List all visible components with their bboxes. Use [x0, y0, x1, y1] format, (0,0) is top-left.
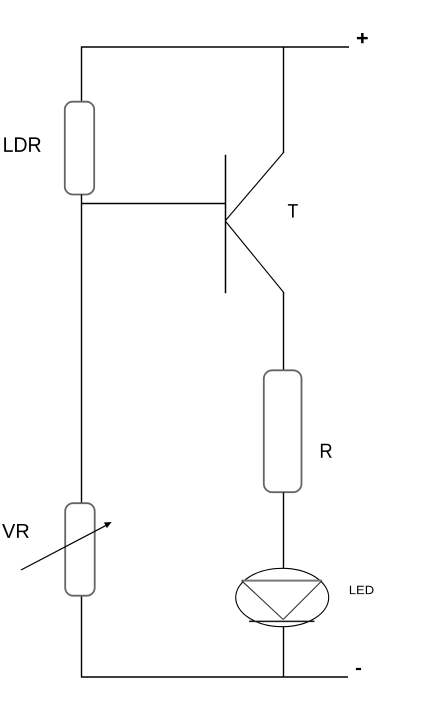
resistor R body: [264, 370, 302, 492]
wire: resistor R bottom to LED top: [283, 493, 285, 569]
LED triangle right side: [283, 581, 322, 620]
label LED: [350, 586, 374, 594]
wire: collector drop from top rail: [283, 47, 285, 154]
resistor VR (variable resistor body): [65, 503, 95, 596]
wire: top supply rail: [81, 46, 349, 48]
node +: positive supply label: [357, 33, 368, 43]
resistor LDR (light dependent resistor body): [65, 102, 94, 195]
transistor T collector diagonal: [226, 153, 284, 221]
node -: negative supply label: [356, 668, 361, 670]
VR adjustment arrow: [21, 522, 112, 570]
LED triangle left side: [242, 581, 284, 620]
wire: emitter to resistor R top: [283, 292, 285, 370]
label LDR: [4, 137, 41, 152]
LED anode top bar (triangle top edge): [242, 580, 323, 582]
wire: bottom rail: [81, 676, 348, 678]
label VR: [2, 524, 29, 538]
wire: LDR bottom to VR top (left vertical): [81, 195, 83, 504]
label T: [288, 204, 298, 218]
wire: LED bottom to bottom rail: [283, 627, 285, 678]
wire: left drop from rail to LDR top: [81, 47, 83, 103]
wire: VR bottom to bottom rail (left vertical): [81, 597, 83, 678]
LED circle outline: [236, 568, 329, 626]
LED cathode bar: [249, 620, 315, 622]
transistor T base bar: [225, 155, 227, 293]
transistor T emitter diagonal: [226, 222, 284, 293]
label R: [321, 444, 332, 458]
wire: base wire from left vertical to transistor base bar: [82, 203, 226, 205]
